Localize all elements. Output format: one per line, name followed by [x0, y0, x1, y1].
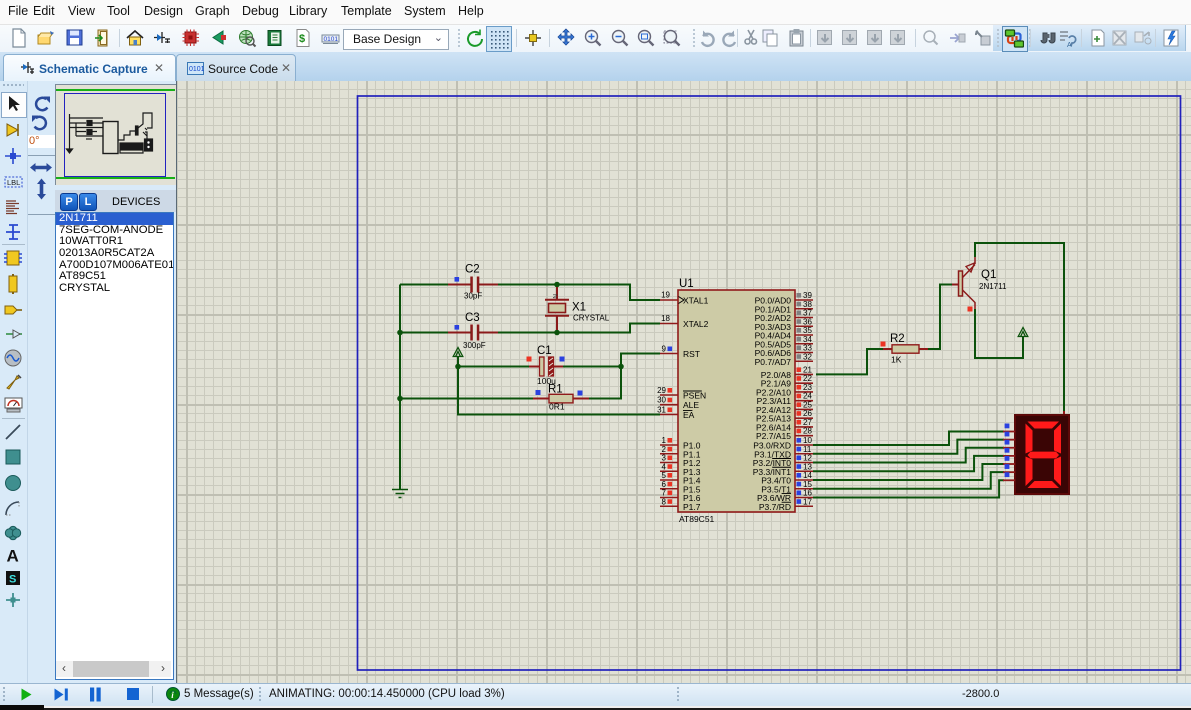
pin 28 P2.7/A15: [756, 427, 813, 442]
svg-text:10: 10: [803, 436, 812, 445]
svg-text:S: S: [9, 574, 16, 586]
pin 12 P3.2/INT0: [753, 454, 813, 469]
svg-text:23: 23: [803, 383, 812, 392]
svg-text:CRYSTAL: CRYSTAL: [573, 314, 610, 323]
segment g: [1028, 452, 1060, 459]
pin 18 XTAL2: [660, 314, 709, 329]
svg-text:C3: C3: [465, 312, 480, 324]
svg-text:LBL: LBL: [7, 178, 20, 187]
svg-text:39: 39: [803, 291, 812, 300]
display pin 6: [1003, 464, 1015, 472]
svg-text:13: 13: [803, 462, 812, 471]
pin 16 P3.6/WR: [757, 489, 813, 504]
svg-text:34: 34: [803, 335, 812, 344]
svg-text:$: $: [299, 33, 305, 45]
svg-text:35: 35: [803, 326, 812, 335]
svg-text:37: 37: [803, 309, 812, 318]
wire P3.6 to display: [813, 480, 1004, 497]
svg-text:U1: U1: [679, 278, 694, 290]
junction C1 left: [455, 364, 461, 370]
pin 34 P0.5/AD5: [755, 335, 813, 350]
svg-text:300pF: 300pF: [463, 341, 486, 350]
capacitor C3: [448, 312, 498, 350]
svg-text:4: 4: [662, 462, 667, 471]
wire EA row: [458, 367, 660, 415]
wire R1 row: [400, 367, 621, 399]
svg-text:32: 32: [803, 352, 812, 361]
pin 38 P0.1/AD1: [755, 300, 813, 315]
wire top rail C2/XTAL1: [400, 285, 660, 301]
wire P3.5 to display: [813, 472, 1004, 489]
svg-text:18: 18: [661, 314, 670, 323]
resistor R1: [533, 384, 589, 412]
segment d: [1028, 481, 1060, 488]
resistor R2: [816, 285, 952, 375]
svg-text:A: A: [1067, 42, 1072, 48]
svg-text:24: 24: [803, 392, 812, 401]
svg-text:1: 1: [662, 436, 667, 445]
pin 9 RST: [660, 345, 700, 360]
svg-text:P3.7/RD: P3.7/RD: [759, 502, 791, 512]
pin 8 P1.7: [660, 497, 701, 512]
svg-text:Q1: Q1: [981, 269, 996, 281]
pin 31 EA: [657, 406, 695, 421]
pin 19 XTAL1: [660, 291, 709, 306]
ground: [392, 490, 408, 498]
svg-text:0R1: 0R1: [549, 402, 565, 412]
svg-text:22: 22: [803, 374, 812, 383]
power terminal right: [1018, 328, 1028, 337]
display pin 1: [1003, 424, 1015, 432]
pin 7 P1.6: [660, 489, 701, 504]
crystal X1: [545, 287, 610, 330]
wire P3.2 to display: [813, 448, 1004, 463]
pin 35 P0.4/AD4: [755, 326, 813, 341]
svg-text:16: 16: [803, 489, 812, 498]
pin 14 P3.4/T0: [761, 471, 813, 486]
pin 25 P2.4/A12: [756, 400, 813, 415]
wire P3.0 to display: [813, 432, 1004, 446]
svg-text:28: 28: [803, 427, 812, 436]
svg-text:5: 5: [662, 471, 667, 480]
svg-text:AT89C51: AT89C51: [679, 514, 715, 524]
svg-text:0101: 0101: [324, 36, 339, 43]
segment c: [1054, 457, 1061, 487]
segment f: [1026, 424, 1033, 454]
pin 13 P3.3/INT1: [753, 462, 813, 477]
junction crystal bottom: [554, 330, 560, 336]
svg-text:29: 29: [657, 386, 666, 395]
pin 39 P0.0/AD0: [755, 291, 813, 306]
svg-text:38: 38: [803, 300, 812, 309]
svg-text:C1: C1: [537, 345, 552, 357]
svg-text:17: 17: [803, 497, 812, 506]
svg-text:26: 26: [803, 409, 812, 418]
svg-text:XTAL1: XTAL1: [683, 296, 709, 306]
display pin 5: [1003, 456, 1015, 464]
svg-text:6: 6: [662, 480, 667, 489]
segment a: [1028, 422, 1060, 429]
svg-text:15: 15: [803, 480, 812, 489]
svg-text:R1: R1: [548, 384, 563, 396]
pin 6 P1.5: [660, 480, 701, 495]
pin 30 ALE: [657, 396, 699, 411]
svg-text:33: 33: [803, 344, 812, 353]
pin 2 P1.1: [660, 445, 701, 460]
svg-text:7: 7: [662, 489, 667, 498]
wire P3.1 to display: [813, 440, 1004, 454]
svg-text:P0.7/AD7: P0.7/AD7: [755, 357, 792, 367]
pin 4 P1.3: [660, 462, 701, 477]
wire C1 row: [458, 366, 621, 368]
wire C3 rail XTAL2: [400, 324, 660, 333]
svg-text:P1.7: P1.7: [683, 502, 701, 512]
svg-text:RST: RST: [683, 349, 700, 359]
pin 10 P3.0/RXD: [753, 436, 813, 451]
svg-text:ALE: ALE: [683, 400, 699, 410]
display pin 7: [1003, 472, 1015, 480]
pin 21 P2.0/A8: [761, 365, 813, 380]
svg-text:R2: R2: [890, 333, 905, 345]
svg-text:14: 14: [803, 471, 812, 480]
pin 36 P0.3/AD3: [755, 317, 813, 332]
wire Q1 emitter to power: [975, 309, 1023, 358]
wire power stub left: [457, 356, 459, 367]
junction left rail R1: [397, 396, 403, 402]
svg-text:EA: EA: [683, 410, 695, 420]
svg-text:30pF: 30pF: [464, 292, 482, 301]
svg-text:0101: 0101: [189, 66, 204, 73]
wire Q1 collector to display top: [975, 243, 1064, 412]
wire left vertical rail: [399, 285, 401, 490]
svg-text:9: 9: [662, 345, 667, 354]
segment e: [1026, 457, 1033, 487]
pin 15 P3.5/T1: [761, 480, 813, 495]
segment b: [1054, 424, 1061, 454]
svg-text:30: 30: [657, 396, 666, 405]
svg-text:25: 25: [803, 400, 812, 409]
capacitor C1 (polarized): [527, 345, 565, 386]
svg-text:2: 2: [662, 445, 667, 454]
wire P3.4 to display: [813, 464, 1004, 480]
svg-text:A: A: [7, 547, 19, 566]
display pin 2: [1003, 432, 1015, 440]
display pin 4: [1003, 448, 1015, 456]
junction crystal top: [554, 282, 560, 288]
sheet border: [358, 96, 1181, 670]
svg-text:12: 12: [803, 454, 812, 463]
wire P3.3 to display: [813, 456, 1004, 471]
svg-text:C2: C2: [465, 264, 480, 276]
svg-text:11: 11: [803, 445, 812, 454]
junction left rail C3: [397, 330, 403, 336]
svg-text:27: 27: [803, 418, 812, 427]
pin 27 P2.6/A14: [756, 418, 813, 433]
pin 32 P0.7/AD7: [755, 352, 813, 367]
pin 5 P1.4: [660, 471, 701, 486]
svg-text:N: N: [551, 294, 558, 299]
svg-text:X1: X1: [572, 302, 586, 314]
power terminal left: [453, 348, 463, 357]
pin 11 P3.1/TXD: [754, 445, 813, 460]
pin 29 PSEN: [657, 386, 706, 401]
capacitor C2: [448, 264, 498, 301]
display pin 3: [1003, 440, 1015, 448]
pin 23 P2.2/A10: [756, 383, 813, 398]
pin 22 P2.1/A9: [761, 374, 813, 389]
junction C1 right: [618, 364, 624, 370]
svg-text:36: 36: [803, 317, 812, 326]
svg-text:3: 3: [662, 454, 667, 463]
svg-text:19: 19: [661, 291, 670, 300]
pin 3 P1.2: [660, 454, 701, 469]
svg-text:31: 31: [657, 406, 666, 415]
pin 1 P1.0: [660, 436, 701, 451]
wire RST link: [621, 354, 660, 367]
7-segment display: [1015, 411, 1069, 494]
svg-text:XTAL2: XTAL2: [683, 319, 709, 329]
IC U1 AT89C51: [678, 278, 795, 524]
svg-text:8: 8: [662, 497, 667, 506]
pin 33 P0.6/AD6: [755, 344, 813, 359]
svg-text:PSEN: PSEN: [683, 391, 706, 401]
pin 37 P0.2/AD2: [755, 309, 813, 324]
svg-text:21: 21: [803, 365, 812, 374]
svg-text:1K: 1K: [891, 355, 902, 365]
pin 17 P3.7/RD: [759, 497, 813, 512]
pin 26 P2.5/A13: [756, 409, 813, 424]
svg-text:2N1711: 2N1711: [979, 282, 1007, 291]
transistor Q1: [952, 257, 1007, 312]
pin 24 P2.3/A11: [757, 392, 813, 407]
